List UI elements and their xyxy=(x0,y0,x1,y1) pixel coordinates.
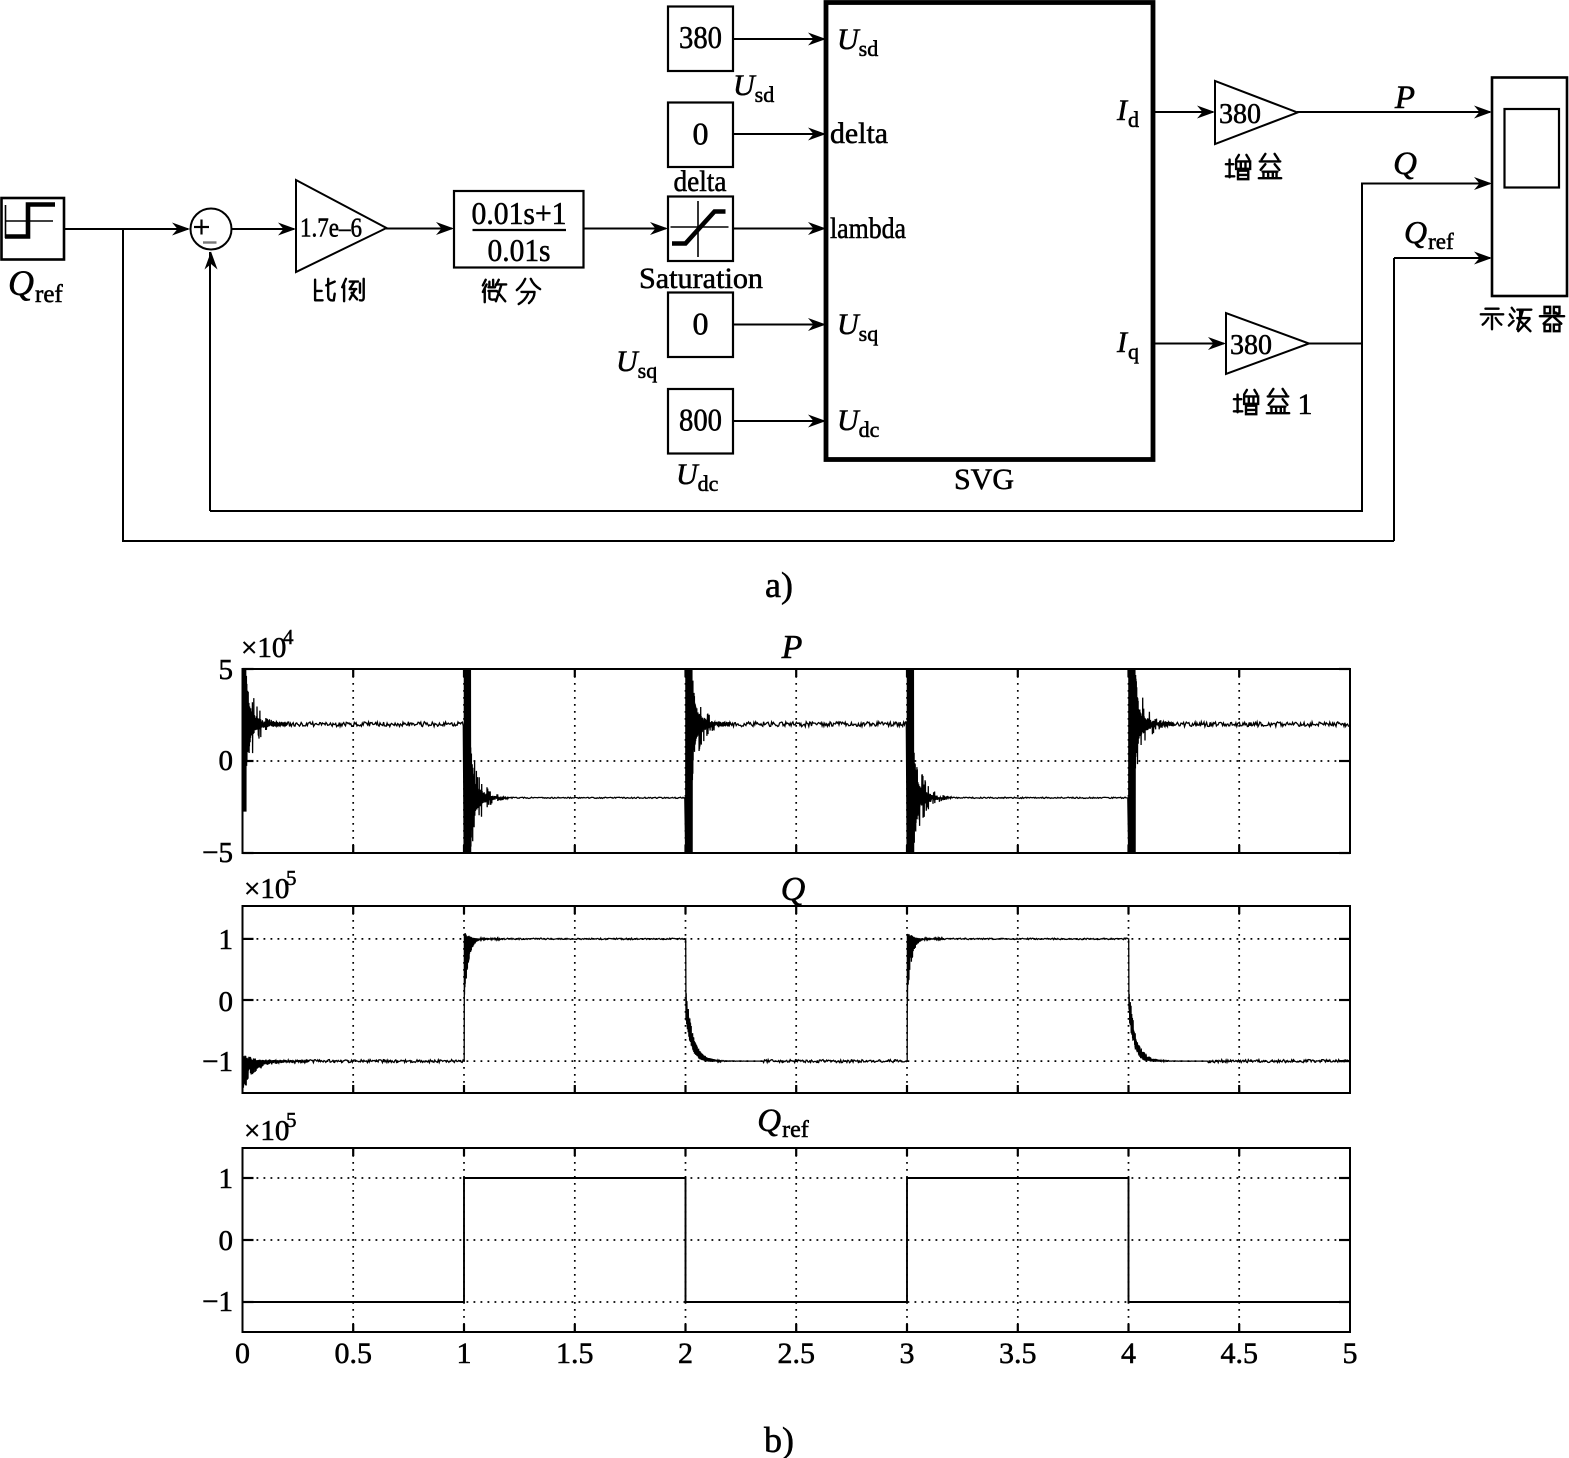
svg-text:−1: −1 xyxy=(202,1046,233,1078)
svg-text:×10: ×10 xyxy=(244,873,289,905)
Q branch vertical xyxy=(1361,183,1363,513)
svg-text:4: 4 xyxy=(283,625,294,649)
svg-text:0: 0 xyxy=(219,1225,234,1257)
svg-text:Saturation: Saturation xyxy=(639,262,763,295)
label WeiFen (derivative) xyxy=(483,279,540,304)
wire step to sum with branch xyxy=(64,223,190,236)
label Usd under constant xyxy=(733,69,774,107)
svg-text:−5: −5 xyxy=(202,837,233,869)
chart Qref title xyxy=(757,1103,808,1143)
label Udc under constant xyxy=(676,458,719,496)
svg-text:0.01s+1: 0.01s+1 xyxy=(472,195,567,231)
gain 1.7e-6 (proportional) xyxy=(296,180,387,272)
chart Qref scale x10^5 xyxy=(244,1108,297,1147)
transfer function 0.01s+1/0.01s xyxy=(454,191,584,268)
svg-text:1: 1 xyxy=(219,924,234,956)
Qref branch vertical from source xyxy=(123,229,1492,542)
wire 0 to SVG delta xyxy=(733,128,826,141)
chart Qref waveform xyxy=(243,1178,1351,1302)
label Usq left of constant xyxy=(616,345,657,383)
svg-text:P: P xyxy=(1394,80,1415,116)
svg-text:0: 0 xyxy=(219,986,234,1018)
caption b) xyxy=(764,1420,794,1458)
constant 0 (Usq) xyxy=(668,293,733,358)
constant 0 (delta) xyxy=(668,103,733,168)
chart Qref y labels xyxy=(202,1163,233,1318)
svg-text:4: 4 xyxy=(1121,1337,1136,1370)
label Qref xyxy=(8,263,63,308)
svg-text:×10: ×10 xyxy=(241,632,286,664)
wire Q to scope xyxy=(1362,177,1492,190)
svg-text:3.5: 3.5 xyxy=(999,1337,1037,1370)
sum junction xyxy=(191,209,232,250)
chart P y labels xyxy=(202,654,233,869)
svg-text:2.5: 2.5 xyxy=(778,1337,816,1370)
svg-text:5: 5 xyxy=(219,654,234,686)
wire sum to gain xyxy=(232,223,297,236)
chart P scale x10^4 xyxy=(241,625,294,664)
svg-text:Q: Q xyxy=(781,871,806,908)
wire 0 to SVG Usq xyxy=(733,318,826,331)
svg-text:380: 380 xyxy=(679,19,722,55)
svg-text:4.5: 4.5 xyxy=(1221,1337,1259,1370)
wire 800 to SVG Udc xyxy=(733,415,826,428)
SVG block xyxy=(826,3,1153,460)
svg-text:1: 1 xyxy=(1297,388,1312,421)
svg-text:Q: Q xyxy=(1393,146,1417,182)
svg-text:0: 0 xyxy=(235,1337,250,1370)
wire 380 to SVG xyxy=(733,33,826,46)
label SVG under block xyxy=(954,463,1014,496)
svg-text:0: 0 xyxy=(693,116,709,152)
chart P waveform xyxy=(243,669,1350,853)
chart Qref x axis labels xyxy=(235,1337,1358,1370)
wire gain to scope P xyxy=(1297,106,1492,119)
step source Qref xyxy=(2,198,65,260)
svg-text:800: 800 xyxy=(679,402,722,438)
wire saturation to SVG lambda xyxy=(733,222,826,235)
constant 380 (Usd) xyxy=(668,7,733,72)
svg-text:1: 1 xyxy=(457,1337,472,1370)
gain 380 (ZengYi) xyxy=(1215,81,1298,144)
chart Q frame and grid xyxy=(243,906,1351,1093)
label ZengYi (gain) xyxy=(1226,154,1281,179)
svg-text:1: 1 xyxy=(219,1163,234,1195)
label Qref on wire xyxy=(1404,214,1454,254)
svg-text:3: 3 xyxy=(900,1337,915,1370)
svg-text:1.7e–6: 1.7e–6 xyxy=(300,213,362,243)
svg-text:380: 380 xyxy=(1219,99,1261,130)
chart Q title xyxy=(781,871,806,908)
svg-text:380: 380 xyxy=(1230,330,1272,361)
label delta under constant xyxy=(674,165,727,198)
wire Id to gain xyxy=(1153,106,1215,119)
saturation block xyxy=(668,197,733,262)
svg-text:1.5: 1.5 xyxy=(556,1337,594,1370)
svg-text:0: 0 xyxy=(219,745,234,777)
svg-text:SVG: SVG xyxy=(954,463,1014,496)
svg-text:2: 2 xyxy=(678,1337,693,1370)
label BiLi (proportional) xyxy=(315,279,364,301)
label ZengYi1 (gain1) xyxy=(1234,388,1313,421)
chart Q y labels xyxy=(202,924,233,1078)
chart Q scale x10^5 xyxy=(244,866,297,905)
wire gain1 out to branch xyxy=(1309,343,1362,345)
caption a) xyxy=(765,565,793,605)
svg-text:delta: delta xyxy=(830,117,888,150)
svg-text:5: 5 xyxy=(286,1108,297,1132)
svg-text:0: 0 xyxy=(693,306,709,342)
Q feedback bottom wire xyxy=(205,252,1363,512)
svg-text:delta: delta xyxy=(674,165,727,198)
scope block xyxy=(1492,78,1567,297)
svg-text:−1: −1 xyxy=(202,1286,233,1318)
chart Qref frame and grid xyxy=(243,1148,1351,1332)
svg-text:P: P xyxy=(781,629,803,666)
svg-text:a): a) xyxy=(765,565,793,605)
wire gain to transfer fn xyxy=(386,222,454,235)
svg-text:0.01s: 0.01s xyxy=(488,232,551,268)
wire tf to saturation xyxy=(584,222,669,235)
chart P title xyxy=(781,629,803,666)
svg-text:×10: ×10 xyxy=(244,1115,289,1147)
constant 800 (Udc) xyxy=(668,389,733,454)
svg-text:lambda: lambda xyxy=(830,212,906,245)
gain 380 (ZengYi1) xyxy=(1226,313,1309,374)
label Saturation xyxy=(639,262,763,295)
label ShiBoQi (oscilloscope) xyxy=(1481,307,1564,331)
chart P frame and grid xyxy=(243,669,1351,853)
chart Q waveform xyxy=(243,933,1350,1088)
label P on wire xyxy=(1394,80,1415,116)
wire Iq to gain1 xyxy=(1153,337,1226,350)
svg-text:0.5: 0.5 xyxy=(335,1337,373,1370)
svg-text:b): b) xyxy=(764,1420,794,1458)
svg-text:5: 5 xyxy=(286,866,297,890)
label Q on wire xyxy=(1393,146,1417,182)
svg-text:5: 5 xyxy=(1343,1337,1358,1370)
